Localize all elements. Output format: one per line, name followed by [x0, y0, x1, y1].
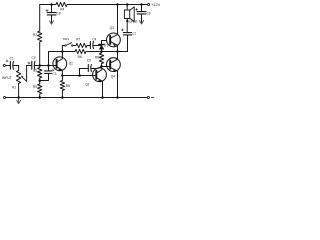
svg-text:C1: C1 — [10, 57, 14, 61]
resistor R4 — [56, 2, 67, 6]
diode D1 — [99, 45, 104, 52]
ground arrow (C6) — [139, 21, 143, 25]
capacitor C7 — [123, 33, 131, 35]
terminal input signal — [3, 64, 5, 66]
transistor Q1 — [53, 52, 67, 76]
ground arrow (C8) — [49, 21, 53, 25]
node output junction Q3/Q4 — [116, 50, 119, 53]
capacitor C2 — [32, 61, 35, 69]
wire C8 to ground — [51, 15, 53, 22]
svg-text:C3: C3 — [52, 72, 56, 76]
wire speaker top lead — [126, 5, 128, 11]
switch SW1 — [62, 43, 76, 52]
svg-text:C5: C5 — [87, 59, 91, 63]
wire wiper to C2 — [27, 66, 32, 82]
node Q4 emitter ground — [116, 96, 119, 99]
resistor R6 — [75, 49, 86, 53]
resistor R5 — [60, 76, 64, 98]
wire left supply column — [39, 5, 41, 66]
transistor Q4 — [107, 52, 121, 98]
node Q3 collector rail junction — [116, 3, 119, 6]
wire Q3 base — [102, 41, 107, 46]
output bus wire — [49, 51, 128, 53]
node speaker rail junction — [126, 3, 129, 6]
wire Q1 base — [40, 65, 57, 67]
svg-text:SPKR: SPKR — [128, 20, 138, 24]
transistor Q3 — [107, 29, 121, 52]
wire C5 riser — [80, 69, 89, 76]
capacitor C5 — [88, 65, 91, 72]
ground arrow (rail) — [17, 98, 21, 104]
wire C6 drop — [141, 5, 143, 12]
terminal input ground — [3, 96, 5, 98]
node D1 anode junction — [100, 50, 103, 53]
resistor R8 — [99, 53, 103, 63]
svg-text:C8: C8 — [56, 11, 60, 15]
wire feedback to Q1 base — [48, 52, 50, 66]
wire R7 to C4 — [87, 45, 90, 47]
wire Q4 base — [102, 66, 111, 68]
node C6 rail junction — [140, 3, 143, 6]
wire C1 to pot — [14, 66, 19, 71]
wire input to C1 — [6, 65, 11, 67]
node Q2 collector junction — [100, 65, 103, 68]
resistor R2 — [38, 31, 42, 42]
svg-text:Q3: Q3 — [110, 26, 114, 30]
resistor R7 — [76, 43, 87, 47]
svg-text:D1: D1 — [104, 44, 108, 48]
svg-text:Q1: Q1 — [69, 61, 73, 65]
node Q1 base bias junction — [38, 64, 41, 67]
resistor R3 — [38, 66, 42, 85]
node C5 tap — [78, 74, 81, 77]
svg-text:INPUT: INPUT — [2, 76, 12, 80]
node C8 junction — [50, 3, 53, 6]
capacitor C3 — [48, 66, 50, 71]
node Q1 emitter — [61, 74, 64, 77]
wire C6 to ground — [141, 14, 143, 22]
capacitor C8 — [47, 13, 56, 15]
potentiometer R1 — [16, 71, 20, 98]
svg-text:R7: R7 — [76, 37, 80, 41]
svg-text:R3: R3 — [33, 69, 37, 73]
wire C8 drop — [51, 5, 53, 13]
node R5 ground — [61, 96, 64, 99]
node Q2 emitter ground — [101, 96, 104, 99]
label minus — [151, 96, 154, 98]
wire C2 to base node — [35, 65, 40, 67]
terminal supply negative — [147, 96, 149, 98]
wire C7 to output node — [118, 35, 128, 51]
wire +12V top rail — [40, 4, 148, 6]
node divider tap — [38, 79, 41, 82]
resistor R9 — [38, 84, 42, 98]
wire Q1 emitter bus — [62, 75, 96, 77]
svg-text:+12V: +12V — [151, 2, 160, 7]
svg-text:SW1: SW1 — [63, 37, 70, 41]
svg-text:R5: R5 — [66, 84, 70, 88]
node divider ground — [38, 96, 41, 99]
wire Q3 collector feed — [117, 5, 119, 35]
wiper arrow R1 — [22, 77, 27, 82]
wire speaker bottom lead — [126, 19, 128, 33]
svg-text:R6: R6 — [78, 55, 82, 59]
svg-text:C7: C7 — [132, 32, 136, 36]
terminal +12V — [148, 3, 150, 5]
svg-text:C4: C4 — [92, 37, 96, 41]
node speaker bottom — [126, 20, 128, 22]
capacitor C6 — [137, 12, 146, 14]
svg-text:R8: R8 — [95, 55, 99, 59]
node pot ground — [17, 96, 20, 99]
svg-text:Q4: Q4 — [111, 74, 115, 78]
wire C4 to D1 node — [94, 45, 102, 47]
ground rail — [6, 97, 147, 99]
wire C5 to Q2 collector — [92, 66, 102, 68]
svg-text:Q2: Q2 — [85, 82, 89, 86]
transistor Q2 — [93, 66, 107, 97]
wire C3 to divider tap — [40, 74, 49, 81]
svg-text:R1: R1 — [12, 85, 16, 89]
svg-text:R2: R2 — [33, 33, 37, 37]
speaker SPKR — [124, 10, 129, 19]
svg-text:C6: C6 — [147, 11, 151, 15]
capacitor C4 — [90, 42, 93, 49]
node Q1 collector junction — [61, 50, 64, 53]
svg-text:C2: C2 — [32, 56, 36, 60]
svg-text:R4: R4 — [60, 7, 64, 11]
node C3 junction — [47, 64, 50, 67]
svg-text:R9: R9 — [33, 85, 37, 89]
capacitor C1 — [10, 61, 13, 69]
